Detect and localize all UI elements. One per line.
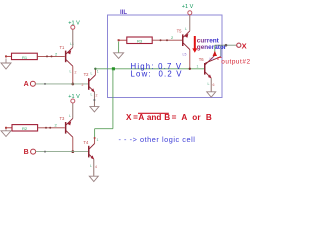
svg-text:output#2: output#2 — [221, 58, 250, 65]
svg-text:T6: T6 — [199, 57, 205, 62]
transistor T2 (NPN inverter, cell A) — [88, 75, 95, 92]
T6 collector#1 wire up to X — [214, 45, 216, 55]
svg-text:+1 V: +1 V — [68, 94, 80, 100]
transistor T4 (NPN inverter, cell B) — [88, 144, 95, 160]
svg-text:L5: L5 — [183, 53, 187, 57]
junction dots after R1 — [46, 55, 48, 57]
T2 collector stub up to node wire — [94, 69, 96, 75]
svg-text:R1: R1 — [22, 55, 28, 60]
svg-text:- - -> other logic cell: - - -> other logic cell — [119, 135, 196, 144]
svg-text:2: 2 — [55, 52, 58, 57]
svg-text:X =: X = — [126, 113, 138, 122]
svg-text:T3: T3 — [60, 116, 66, 121]
T2 emitter wire down — [93, 92, 95, 107]
junction node (T5 collector / T6 base) — [189, 68, 191, 70]
output X wire — [215, 44, 237, 46]
junction dots after R2 — [45, 127, 47, 129]
svg-text:2: 2 — [82, 83, 84, 87]
svg-text:L: L — [69, 114, 71, 118]
svg-text:L: L — [70, 70, 72, 74]
transistor T5 (PNP current generator) — [182, 31, 190, 50]
T6 emitter wire down — [210, 78, 212, 92]
resistor R1 — [5, 53, 65, 60]
junction dot on B wire — [44, 151, 46, 153]
+1V supply terminal (cell B) — [71, 99, 75, 103]
svg-text:A: A — [24, 81, 29, 88]
svg-text:+1 V: +1 V — [182, 4, 194, 10]
output#2 pointer mark — [218, 58, 222, 61]
svg-text:A and B: A and B — [138, 113, 170, 122]
svg-text:X: X — [242, 42, 247, 51]
svg-text:L1: L1 — [70, 42, 74, 46]
svg-text:B: B — [24, 149, 29, 156]
wire +1V to T1 emitter — [72, 29, 74, 47]
ground (T6 emitter) — [207, 92, 216, 97]
svg-text:T5: T5 — [177, 28, 183, 33]
junction dot on A wire — [44, 83, 46, 85]
svg-text:4: 4 — [95, 165, 97, 169]
svg-text:Low: 0.2 V: Low: 0.2 V — [131, 69, 183, 78]
svg-text:L: L — [185, 27, 187, 31]
junction node (T1 collector to A wire) — [71, 83, 74, 86]
ground (T4 emitter) — [89, 176, 98, 181]
junction dot (collector#2 to X wire) — [225, 44, 228, 47]
svg-text:2: 2 — [75, 71, 77, 75]
junction node (T3 collector to B wire) — [71, 150, 74, 153]
node junction dot (green) — [112, 67, 115, 70]
svg-text:T2: T2 — [84, 72, 90, 77]
ground (T2 emitter) — [90, 107, 99, 112]
wire +1V to T3 emitter — [72, 103, 74, 118]
wire T1 collector down to node A base — [72, 66, 74, 84]
T4 collector stub — [94, 139, 96, 144]
+1V supply terminal (cell A) — [71, 25, 75, 29]
svg-text:L: L — [91, 93, 93, 97]
svg-text:1: 1 — [97, 138, 99, 142]
svg-text:2: 2 — [171, 35, 174, 40]
svg-text:L: L — [208, 82, 210, 86]
svg-text:L: L — [90, 164, 92, 168]
+1V supply terminal (IIL cell) — [188, 11, 192, 15]
svg-text:1: 1 — [97, 70, 99, 74]
ground (R1 left) — [1, 59, 11, 70]
svg-text:2: 2 — [96, 94, 98, 98]
wire B input to T4 base — [35, 151, 88, 153]
wire other-cell horizontal segment — [95, 128, 113, 130]
svg-text:T1: T1 — [60, 45, 66, 50]
ground (R2 left) — [1, 129, 11, 136]
T6 collector#2 wire up — [220, 45, 222, 56]
svg-text:+1 V: +1 V — [68, 20, 80, 26]
svg-text:L: L — [91, 72, 93, 76]
svg-text:1: 1 — [197, 65, 199, 69]
output terminal X — [237, 43, 241, 47]
wire T3 collector down to node B base — [72, 137, 74, 151]
svg-text:= A or B: = A or B — [172, 113, 212, 122]
node wire (wired-AND node into IIL cell base) — [95, 68, 204, 70]
equation overline — [138, 112, 169, 114]
transistor T3 (PNP injector, cell B) — [65, 118, 73, 137]
svg-text:T4: T4 — [83, 140, 89, 145]
svg-text:IIL: IIL — [120, 10, 127, 16]
svg-text:L6: L6 — [210, 57, 214, 61]
wire T5 collector down to T6 base — [189, 50, 191, 69]
injector current arrow (bold red) — [194, 36, 196, 49]
wire A input to T2 base — [35, 83, 88, 85]
transistor T6 (NPN output, 2 collectors) — [204, 55, 221, 78]
wire +1V to T5 emitter — [189, 15, 191, 31]
resistor R2 — [5, 125, 65, 132]
wire from other-cell collector up to node (vertical) — [112, 69, 114, 129]
T4 emitter wire down — [93, 159, 95, 176]
svg-text:R2: R2 — [22, 126, 28, 131]
svg-text:2: 2 — [55, 123, 58, 128]
output current arrow (small red, up) — [213, 51, 217, 56]
svg-text:6: 6 — [213, 83, 215, 87]
resistor R3 — [118, 37, 182, 44]
svg-text:R3: R3 — [137, 39, 143, 44]
IIL macro box — [108, 15, 223, 98]
junction dots after R3 — [160, 39, 162, 41]
transistor T1 (PNP injector, cell A) — [65, 47, 73, 66]
emitter pin dot — [93, 99, 95, 101]
ground (R3 left, inside IIL box) — [118, 42, 120, 53]
